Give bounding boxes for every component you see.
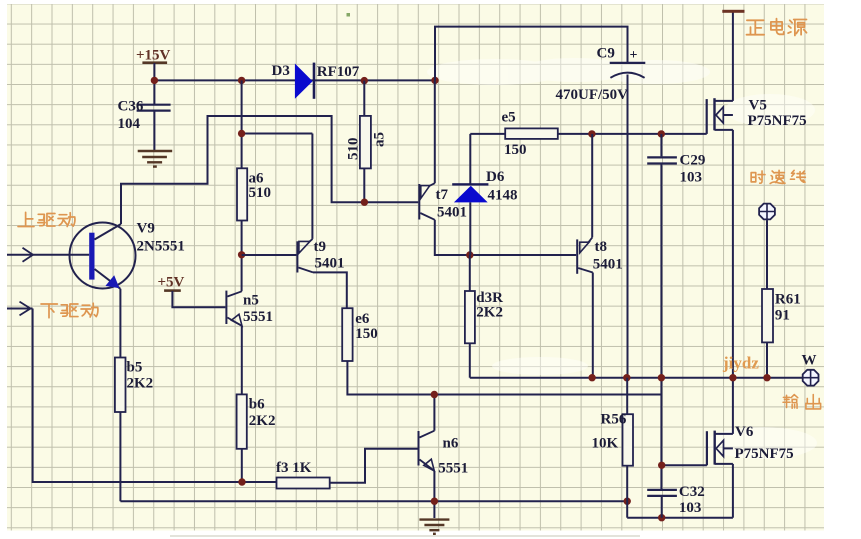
wire n6 emitter to ground <box>433 471 435 518</box>
wire t9 collector to e6 <box>313 272 347 308</box>
svg-text:150: 150 <box>504 142 527 158</box>
label 下驱动 <box>41 303 98 317</box>
wire t8 collector to bus <box>592 273 594 378</box>
wire V9 collector to t7 base <box>121 116 418 224</box>
watermark smudges <box>427 58 817 459</box>
svg-text:510: 510 <box>346 138 362 161</box>
svg-text:470UF/50V: 470UF/50V <box>556 87 629 103</box>
wire a6 vertical top <box>241 80 243 168</box>
junction dot a5/t7-base wire <box>361 199 368 206</box>
svg-text:e6: e6 <box>355 311 370 327</box>
wire C29 bottom through bus to C32 <box>660 164 662 490</box>
svg-text:5401: 5401 <box>593 257 623 273</box>
input arrow 下驱动 <box>7 302 33 316</box>
svg-text:t7: t7 <box>436 187 449 203</box>
wire bottom right rail <box>627 517 733 519</box>
resistor b5 <box>115 358 153 413</box>
wire V5 drain to positive rail <box>732 12 734 101</box>
svg-text:f3 1K: f3 1K <box>276 460 312 476</box>
junction dot bus/R61 <box>763 374 770 381</box>
svg-text:+15V: +15V <box>136 48 171 64</box>
svg-text:5401: 5401 <box>437 205 467 221</box>
svg-text:V9: V9 <box>137 221 155 237</box>
svg-text:P75NF75: P75NF75 <box>735 446 794 462</box>
wire output bus <box>470 377 803 379</box>
junction dot R56/rail <box>624 498 631 505</box>
label 上驱动 <box>18 212 75 226</box>
capacitor C29 103 <box>647 134 705 186</box>
svg-text:2K2: 2K2 <box>127 376 154 392</box>
resistor R56 <box>592 378 634 518</box>
capacitor C36 <box>118 80 171 150</box>
wire n5 emitter to b6 <box>241 326 243 395</box>
wire b5 to bottom rail <box>119 412 121 501</box>
junction dot bus/t8 <box>588 374 595 381</box>
svg-text:R61: R61 <box>775 292 801 308</box>
junction dot t8 emitter/e5 wire <box>588 130 595 137</box>
svg-text:5551: 5551 <box>438 461 468 477</box>
junction dot n6 emitter/rail <box>431 498 438 505</box>
svg-text:W: W <box>802 353 817 369</box>
wire +15V rail <box>154 79 435 81</box>
svg-text:103: 103 <box>680 170 703 186</box>
svg-text:jiydz: jiydz <box>722 354 759 373</box>
mosfet V5 P75NF75 <box>707 98 807 134</box>
junction dot rail/a6 <box>238 77 245 84</box>
svg-text:R56: R56 <box>601 412 627 428</box>
svg-text:b6: b6 <box>249 397 265 413</box>
junction dot D6/d3R node <box>466 251 473 258</box>
svg-text:91: 91 <box>775 308 790 324</box>
label 输出 <box>783 395 821 409</box>
wire t7 collector to t8 base <box>435 220 576 255</box>
wire t7 emitter to rail <box>434 80 436 183</box>
edge artifacts <box>170 13 640 536</box>
diode D6 4148 <box>452 134 517 255</box>
diode D3 RF107 <box>272 63 360 99</box>
svg-text:t8: t8 <box>595 239 608 255</box>
junction dot b6/input wire <box>238 478 245 485</box>
wire C9 bottom long vertical to bus <box>627 75 629 378</box>
resistor d3R <box>465 255 503 378</box>
junction dot bus/C29 <box>658 374 665 381</box>
svg-text:e5: e5 <box>502 110 516 126</box>
junction dot bus/V5-V6 <box>729 374 736 381</box>
svg-text:2K2: 2K2 <box>476 305 503 321</box>
svg-text:2N5551: 2N5551 <box>137 239 185 255</box>
label jiydz <box>722 354 759 373</box>
svg-text:510: 510 <box>249 185 272 201</box>
wire bottom rail y501 <box>120 500 627 502</box>
svg-text:5551: 5551 <box>243 309 273 325</box>
svg-text:+5V: +5V <box>158 275 185 291</box>
svg-text:RF107: RF107 <box>317 64 360 80</box>
wire V6 source to bottom rail <box>732 464 734 518</box>
transistor t8 5401 <box>576 134 623 274</box>
wire 下驱动 input down-and-right <box>33 309 277 483</box>
svg-text:a5: a5 <box>372 132 388 147</box>
wire V5 source down to V6 drain <box>732 130 734 434</box>
wire terminal to R61 <box>766 220 768 289</box>
power +5V <box>158 275 226 308</box>
svg-text:P75NF75: P75NF75 <box>748 113 807 129</box>
junction dot C32/bottom rail <box>658 514 665 521</box>
svg-text:103: 103 <box>679 500 702 516</box>
wire f3 to n6 base <box>330 449 418 483</box>
ground (n6) <box>419 520 449 534</box>
node W output terminal <box>802 353 819 386</box>
svg-text:D6: D6 <box>486 169 505 185</box>
junction dot C29/e5 wire <box>658 130 665 137</box>
power 正电源 <box>722 10 806 36</box>
wire n6 collector <box>433 395 435 431</box>
wire e5 to V5 gate <box>558 133 707 135</box>
svg-text:C32: C32 <box>679 484 705 500</box>
junction dot rail/t7/C9 <box>431 77 438 84</box>
resistor b6 <box>237 394 276 448</box>
transistor n5 5551 <box>225 291 273 326</box>
svg-text:V6: V6 <box>735 424 754 440</box>
transistor n6 5551 <box>418 431 469 477</box>
junction dot V6 gate/C32 <box>658 462 665 469</box>
svg-text:C29: C29 <box>680 153 706 169</box>
svg-text:C36: C36 <box>118 99 144 115</box>
svg-text:+: + <box>630 48 638 63</box>
transistor t9 5401 <box>242 239 345 273</box>
svg-text:104: 104 <box>118 116 141 132</box>
svg-text:V5: V5 <box>749 98 767 114</box>
wire rail to C9 top <box>435 27 628 81</box>
node 时速线 terminal <box>759 204 775 220</box>
resistor R61 <box>762 289 801 378</box>
resistor e5 150 <box>470 110 558 159</box>
svg-text:n5: n5 <box>243 293 259 309</box>
capacitor C32 103 <box>647 484 705 518</box>
svg-text:4148: 4148 <box>488 188 518 204</box>
wire b6 bottom <box>241 449 243 482</box>
capacitor C9 470UF/50V <box>556 46 646 104</box>
wire t9 emitter branch <box>242 134 313 239</box>
resistor e6 <box>342 308 378 361</box>
svg-text:C9: C9 <box>597 46 615 62</box>
junction dot a6/t9 branch <box>238 130 245 137</box>
junction dot rail/a5 <box>361 77 368 84</box>
svg-text:150: 150 <box>355 326 378 342</box>
resistor a5 <box>346 81 388 203</box>
junction dot +15V/C36 <box>151 77 158 84</box>
wire a6 to node <box>241 221 243 292</box>
transistor t7 5401 <box>418 183 467 220</box>
wire V9 emitter to b5 <box>119 289 121 358</box>
power +15V <box>136 48 171 81</box>
transistor V9 2N5551 <box>7 221 185 289</box>
junction dot t9-base node <box>238 251 245 258</box>
svg-text:5401: 5401 <box>315 256 345 272</box>
resistor a6 <box>237 168 271 220</box>
junction dot bus/R56 <box>623 374 630 381</box>
svg-text:n6: n6 <box>443 436 459 452</box>
svg-text:2K2: 2K2 <box>249 413 276 429</box>
mosfet V6 P75NF75 <box>707 424 794 465</box>
wire V6 gate <box>662 464 707 466</box>
svg-text:D3: D3 <box>272 63 290 79</box>
junction dot n6 collector <box>431 391 438 398</box>
label 时速线 <box>751 170 805 183</box>
svg-text:b5: b5 <box>127 360 143 376</box>
svg-text:t9: t9 <box>314 239 327 255</box>
wire e6 to n6 rail <box>347 361 661 395</box>
svg-text:10K: 10K <box>592 436 619 452</box>
resistor f3 1K <box>276 460 330 489</box>
ground (C36) <box>138 151 173 167</box>
